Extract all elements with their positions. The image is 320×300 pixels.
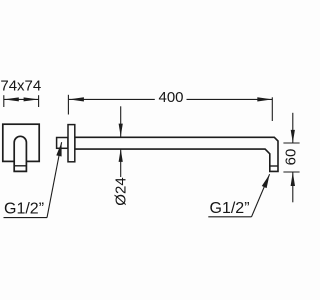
shower arm side view with bent outlet — [75, 137, 278, 171]
svg-text:60: 60 — [282, 149, 299, 166]
dimension 400 — [67, 95, 69, 115]
outlet step line front view — [14, 165, 26, 167]
wall plate front view (74x74 square) — [3, 124, 39, 161]
svg-text:G1/2”: G1/2” — [4, 201, 44, 218]
svg-text:400: 400 — [158, 89, 183, 106]
dimension 60 — [292, 113, 294, 143]
svg-text:Ø24: Ø24 — [113, 177, 130, 205]
svg-text:74x74: 74x74 — [0, 78, 41, 95]
dimension 74x74 — [3, 95, 5, 107]
wall nipple side view — [57, 138, 68, 149]
wall flange side view — [68, 125, 75, 162]
outlet thread step line side view — [270, 165, 278, 167]
drop elbow front view (rounded-top slot) — [14, 136, 26, 171]
dimension diameter 24 — [120, 106, 122, 136]
svg-text:G1/2”: G1/2” — [210, 200, 250, 217]
